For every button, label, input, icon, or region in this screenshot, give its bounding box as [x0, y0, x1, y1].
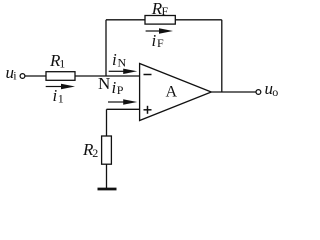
svg-text:P: P: [117, 83, 124, 97]
wire R2 to ground: [106, 164, 108, 188]
input terminal circle: [20, 74, 25, 79]
svg-text:o: o: [272, 85, 278, 99]
svg-text:N: N: [118, 56, 127, 70]
svg-text:1: 1: [58, 92, 64, 106]
resistor RF body: [145, 16, 175, 25]
svg-text:i: i: [53, 86, 58, 105]
wire input terminal to R1: [25, 75, 46, 77]
wire top feedback rail left segment: [106, 19, 145, 21]
current arrow i1: [46, 84, 75, 89]
svg-text:F: F: [157, 36, 164, 50]
svg-text:2: 2: [92, 146, 98, 160]
wire R1 to node N and op-amp inverting input: [75, 75, 140, 77]
wire node N up to feedback rail: [105, 20, 107, 76]
svg-text:i: i: [152, 31, 157, 50]
op-amp plus sign: [144, 106, 152, 114]
op-amp A triangle: [140, 64, 212, 121]
svg-text:N: N: [98, 74, 110, 93]
resistor R1 body: [46, 72, 75, 81]
current arrow iF: [146, 28, 173, 33]
current arrow iN: [109, 69, 138, 74]
svg-text:i: i: [112, 50, 117, 69]
wire down to R2: [106, 109, 108, 136]
output terminal circle: [256, 90, 261, 95]
current arrow iP: [108, 99, 137, 104]
svg-text:1: 1: [59, 57, 65, 71]
wire non-inverting input: [107, 108, 140, 110]
svg-text:i: i: [112, 78, 117, 97]
resistor R2 body: [102, 136, 112, 164]
ground: [98, 188, 117, 191]
output wire op-amp to terminal: [211, 91, 256, 93]
wire feedback rail down to output node: [221, 20, 223, 92]
op-amp minus sign: [144, 74, 152, 76]
svg-text:F: F: [162, 4, 169, 18]
wire top feedback rail right segment: [175, 19, 222, 21]
svg-text:A: A: [166, 84, 178, 101]
